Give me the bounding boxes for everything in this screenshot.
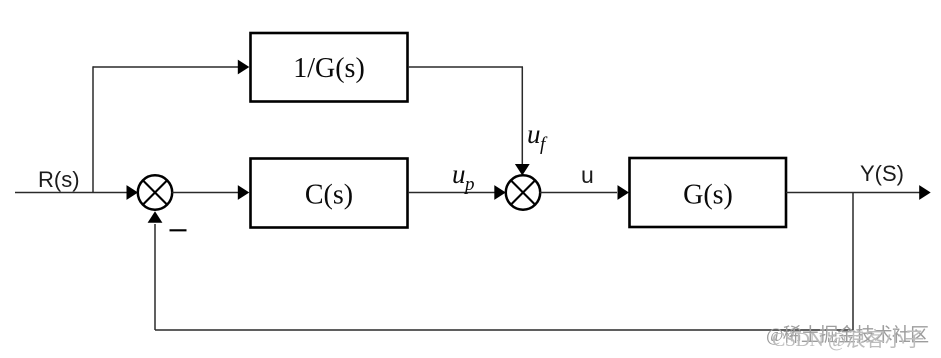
svg-text:u: u bbox=[452, 159, 466, 189]
svg-text:f: f bbox=[540, 134, 548, 155]
arrowhead down into S2 bbox=[515, 164, 530, 176]
svg-text:u: u bbox=[581, 162, 594, 188]
summing junction S2 bbox=[506, 175, 540, 209]
svg-text:CSDN @浪客小子: CSDN @浪客小子 bbox=[772, 328, 924, 351]
wire branch vertical up bbox=[92, 66, 94, 192]
wire top horizontal to 1/G(s) bbox=[93, 66, 238, 68]
block 1/G(s) bbox=[251, 33, 408, 102]
wire down to summing junction S2 bbox=[521, 67, 523, 164]
svg-text:1/G(s): 1/G(s) bbox=[293, 53, 365, 84]
wire S2 to G(s) bbox=[540, 192, 618, 194]
wire feedback branch down bbox=[852, 193, 854, 331]
wire S1 to C(s) bbox=[172, 192, 239, 194]
arrowhead into C(s) bbox=[238, 185, 250, 200]
wire 1/G(s) output right bbox=[408, 66, 523, 68]
wire G(s) output bbox=[786, 192, 920, 194]
svg-text:u: u bbox=[527, 119, 541, 149]
summing junction S1 bbox=[138, 175, 172, 209]
svg-text:G(s): G(s) bbox=[683, 180, 733, 211]
arrowhead into summing junction S1 bbox=[127, 185, 139, 200]
block G(s) bbox=[630, 158, 787, 227]
arrowhead into 1/G(s) bbox=[238, 60, 250, 75]
wire input R(s) to summing junction bbox=[15, 192, 128, 194]
arrowhead up into S1 bbox=[148, 211, 163, 223]
wire C(s) to S2 bbox=[408, 192, 495, 194]
arrowhead into S2 left bbox=[494, 185, 506, 200]
svg-text:p: p bbox=[463, 174, 475, 195]
minus sign at S1 bbox=[170, 229, 187, 231]
wire feedback vertical up into S1 bbox=[154, 224, 156, 330]
svg-text:C(s): C(s) bbox=[305, 180, 353, 211]
arrowhead into G(s) bbox=[618, 185, 630, 200]
wire feedback bottom horizontal bbox=[155, 329, 853, 331]
svg-text:Y(S): Y(S) bbox=[860, 161, 904, 186]
arrowhead output Y(S) bbox=[919, 185, 931, 200]
block C(s) bbox=[251, 159, 408, 228]
svg-text:R(s): R(s) bbox=[38, 167, 80, 192]
